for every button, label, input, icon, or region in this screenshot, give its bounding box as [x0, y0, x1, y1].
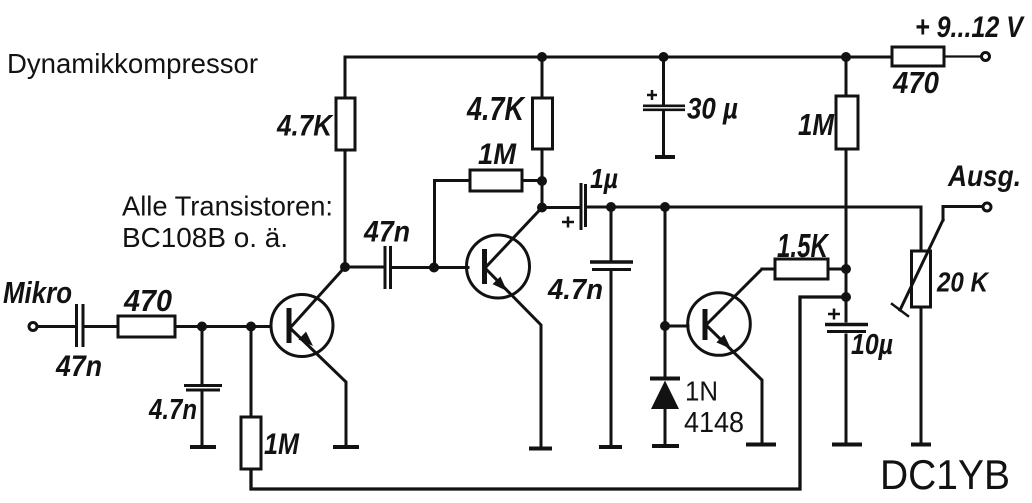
svg-text:470: 470	[123, 283, 172, 318]
svg-text:1.5K: 1.5K	[777, 227, 830, 264]
svg-text:Dynamikkompressor: Dynamikkompressor	[7, 48, 258, 79]
svg-text:30 µ: 30 µ	[687, 93, 738, 126]
svg-text:20 K: 20 K	[936, 267, 989, 298]
svg-text:Mikro: Mikro	[3, 275, 72, 310]
svg-text:1N: 1N	[685, 376, 718, 407]
svg-text:470: 470	[892, 65, 939, 100]
svg-text:4148: 4148	[684, 407, 744, 439]
svg-text:BC108B o. ä.: BC108B o. ä.	[122, 222, 288, 253]
svg-text:4.7n: 4.7n	[547, 274, 603, 306]
svg-text:4.7K: 4.7K	[466, 90, 526, 127]
svg-text:4.7n: 4.7n	[148, 394, 197, 426]
svg-text:4.7K: 4.7K	[276, 110, 334, 143]
svg-text:Alle Transistoren:: Alle Transistoren:	[122, 191, 333, 222]
svg-text:10µ: 10µ	[851, 329, 893, 361]
svg-text:1µ: 1µ	[590, 163, 618, 194]
svg-text:DC1YB: DC1YB	[880, 451, 1010, 498]
svg-text:1M: 1M	[478, 138, 517, 171]
svg-text:1M: 1M	[798, 107, 835, 142]
svg-text:47n: 47n	[55, 350, 102, 383]
svg-text:Ausg.: Ausg.	[947, 160, 1021, 193]
svg-text:47n: 47n	[363, 216, 410, 249]
svg-text:+ 9...12 V: + 9...12 V	[915, 11, 1025, 44]
svg-text:1M: 1M	[264, 428, 300, 461]
